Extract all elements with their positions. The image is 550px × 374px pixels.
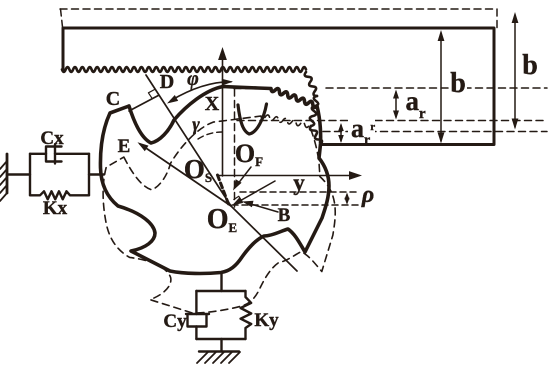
rod cutter to box y [220,273,222,292]
line D (rake line through O_E) [146,75,231,206]
wall (left) [6,154,9,193]
dashed line y=131.5 (outer b bottom ref) [323,131,547,133]
mask behind O_F label [240,145,262,164]
dashed vertical construction x=234.5 [234,89,236,207]
right angle mark at D [148,90,154,99]
milling cutter body outline [100,87,329,274]
line E (through O_E to lower right) [140,144,297,271]
right angle mark at B [234,196,242,201]
dashed outer top line (b outer reference) [60,8,497,10]
svg-text:φ: φ [187,68,199,90]
rod box to cutter [89,173,104,175]
svg-text:b: b [450,68,466,99]
leader from O_F label to point [237,167,251,185]
step cut surface (being machined) [305,72,317,96]
dashed line y=88 (top of a_r) [326,87,547,89]
spring Kx [30,191,89,199]
machined wavy surface [62,67,306,72]
angle arrow phi (curved double arrow) [171,82,231,101]
dimension b (outer) [514,15,516,127]
damper Cx [30,153,46,155]
dashed line y=120 (bottom of a_r) [237,120,547,122]
leader arrow to O_E from upper right [238,181,275,202]
dashed right corner vertical [496,9,498,28]
dimension rho [346,195,348,202]
dashed left corner tick [61,9,63,27]
mask behind b inner label [449,74,467,96]
dimension a_r [395,92,397,117]
eccentricity segment O_S - O_E (thick dashed) [218,175,229,204]
rod wall to box [7,173,30,175]
dashed displaced cutter outline (rotated position) [92,104,349,327]
svg-text:b: b [522,50,538,81]
damper Cy [195,291,197,314]
svg-text:B: B [278,205,291,226]
svg-text:C: C [106,88,120,110]
mask behind a_r prime label [348,119,375,142]
svg-text:E: E [118,136,131,157]
svg-text:Ky: Ky [254,310,279,331]
dashed line y=192 (rho top) [240,191,358,193]
dimension a_r prime [340,125,342,141]
svg-text:D: D [160,71,174,93]
y axis (horizontal) [219,175,352,177]
svg-text:Cy: Cy [163,311,187,332]
perpendicular tick from tooth C to line D [129,95,159,111]
svg-text:y: y [293,170,305,195]
x axis (vertical) [222,58,224,176]
dimension b (inner) [440,33,442,141]
leader from B label [249,204,278,213]
flute (U gullet) of engaged tooth [238,104,267,134]
svg-text:X: X [205,93,220,115]
ground line [199,350,239,352]
svg-text:ρ: ρ [361,182,374,208]
svg-text:Cx: Cx [40,128,64,149]
rod box to ground [220,339,222,352]
box frame x [30,154,89,195]
box frame y [196,291,245,339]
svg-text:Kx: Kx [43,198,68,219]
workpiece block outline [63,28,494,145]
dashed line y=205 (rho bottom through O_E) [232,204,358,206]
angle arc gamma (dashed) [198,132,222,139]
svg-text:γ: γ [192,114,200,134]
spring Ky [241,291,252,339]
